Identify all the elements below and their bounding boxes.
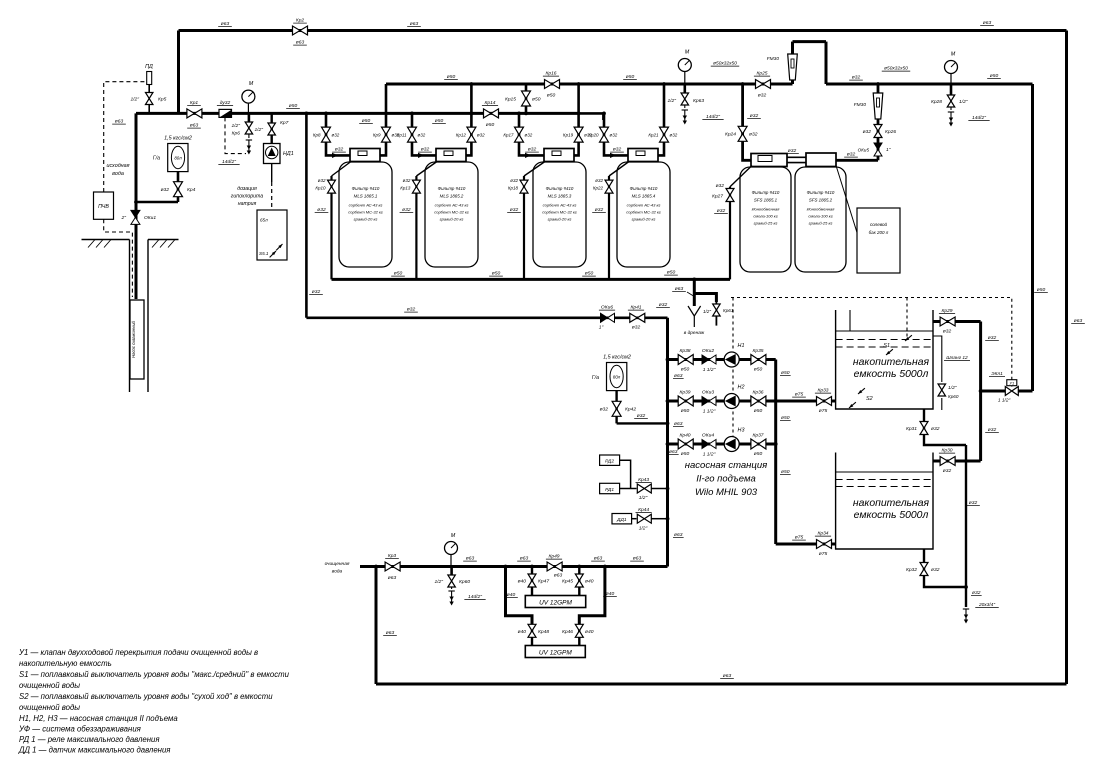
valve Kr27	[726, 189, 734, 202]
wire bottom return pipe O63	[376, 683, 1067, 686]
svg-text:ø63: ø63	[674, 421, 683, 427]
head softener SFS2	[806, 153, 836, 167]
svg-text:ø63: ø63	[675, 286, 684, 292]
svg-text:S2: S2	[866, 396, 873, 402]
svg-text:ø32: ø32	[332, 132, 340, 137]
tank hypochlorite 65l	[257, 210, 287, 260]
svg-text:1/2": 1/2"	[434, 579, 443, 585]
svg-text:Кр42: Кр42	[625, 407, 636, 413]
tank brine 200l	[857, 208, 900, 273]
pump ND1 dosing	[264, 144, 281, 164]
svg-text:ø63: ø63	[386, 630, 395, 636]
node drain Kr30 cross	[964, 459, 968, 463]
valve Kr50	[450, 567, 453, 578]
svg-text:S5.1: S5.1	[259, 251, 269, 256]
wire ND1 suction hose	[271, 164, 273, 183]
svg-text:насосная станция: насосная станция	[685, 460, 767, 471]
drain under Kr50	[448, 590, 454, 592]
wire PD stub	[148, 85, 150, 114]
svg-text:Ионообменная: Ионообменная	[807, 207, 836, 212]
wire header bump top	[793, 40, 827, 43]
svg-text:SFS 1865.2: SFS 1865.2	[809, 198, 833, 203]
wire filter 4 outlet riser	[658, 84, 664, 155]
svg-text:У1 — клапан двухходовой перекр: У1 — клапан двухходовой перекрытия подач…	[18, 648, 258, 657]
svg-text:Кр61: Кр61	[723, 308, 734, 313]
part tank2 water level	[836, 471, 933, 473]
svg-text:ø32: ø32	[613, 147, 622, 153]
tank filter 1 MLS	[339, 162, 392, 267]
tank Ga2 accumulator	[607, 363, 627, 391]
svg-text:сорбент АС-43 кг: сорбент АС-43 кг	[349, 203, 383, 208]
svg-text:ø50: ø50	[754, 367, 763, 373]
svg-text:ОКи6: ОКи6	[601, 305, 613, 311]
valve Кр35	[751, 355, 766, 365]
valve Kr63	[683, 84, 686, 95]
svg-text:MLS 1865.3: MLS 1865.3	[548, 194, 572, 199]
svg-text:ø32: ø32	[403, 178, 411, 183]
flow arrow filter 4	[610, 153, 616, 158]
svg-text:Фильтр #410: Фильтр #410	[546, 186, 574, 191]
wire dashed PChV to pump	[104, 219, 133, 297]
svg-text:ø32: ø32	[318, 178, 326, 183]
node UV taps	[530, 565, 534, 569]
svg-text:Кр35: Кр35	[752, 348, 763, 354]
svg-text:80л: 80л	[613, 375, 621, 380]
drain under Kr63	[682, 109, 688, 111]
valve Kr45	[575, 574, 583, 587]
svg-text:ø50: ø50	[362, 118, 371, 124]
wire dashed PChV to PD	[104, 82, 146, 192]
wire filter 3 drain diagonal	[524, 162, 545, 177]
svg-text:ø50: ø50	[547, 93, 556, 99]
svg-text:ø32: ø32	[317, 207, 326, 213]
svg-text:ø32: ø32	[931, 567, 940, 573]
svg-text:Кр15: Кр15	[505, 97, 516, 103]
svg-text:ø32: ø32	[863, 129, 872, 135]
svg-text:ø75: ø75	[795, 392, 804, 398]
valve Kr46	[575, 624, 583, 637]
svg-text:гравий-20 кг: гравий-20 кг	[632, 217, 656, 222]
drain under Kr28	[948, 111, 954, 113]
svg-text:очищенной воды: очищенной воды	[19, 681, 80, 690]
svg-text:ø32: ø32	[931, 426, 940, 432]
svg-text:Кр46: Кр46	[562, 629, 573, 635]
part suction lance	[276, 244, 282, 250]
svg-text:М: М	[249, 81, 254, 87]
wire drain collector vertical	[965, 445, 967, 607]
svg-text:Кр1: Кр1	[190, 100, 199, 106]
valve Kr31	[920, 422, 928, 435]
svg-text:ø50: ø50	[447, 74, 456, 80]
wire filter 1 drain line	[330, 176, 332, 279]
node row Н1 suction	[666, 358, 670, 362]
svg-text:Кр32: Кр32	[906, 567, 917, 573]
svg-text:гипохлорита: гипохлорита	[231, 194, 264, 200]
svg-text:14d/2": 14d/2"	[972, 115, 986, 121]
wire filter 4 drain diagonal	[609, 162, 629, 177]
svg-text:ø63: ø63	[674, 532, 683, 538]
svg-text:ду32: ду32	[220, 100, 231, 106]
svg-text:ø50х32х50: ø50х32х50	[884, 66, 908, 72]
svg-text:Кр28: Кр28	[931, 99, 942, 105]
tank filter 2 MLS	[425, 162, 478, 267]
svg-text:ø63: ø63	[983, 20, 992, 26]
svg-text:Кр41: Кр41	[630, 305, 641, 311]
svg-text:ø50х32х50: ø50х32х50	[713, 61, 737, 67]
svg-text:ОКи4: ОКи4	[702, 433, 714, 439]
svg-text:ø32: ø32	[670, 132, 678, 137]
svg-text:Кр29: Кр29	[941, 308, 952, 314]
valve Кр37	[751, 439, 766, 449]
svg-text:ø32: ø32	[161, 187, 170, 193]
node EKl1 junction	[979, 389, 983, 393]
svg-text:ø40: ø40	[518, 579, 527, 585]
node Kr21 header tee	[662, 82, 666, 86]
wire accumulator to raw pipe	[136, 201, 178, 204]
svg-text:ø32: ø32	[595, 207, 604, 213]
wire dashed EKl1 control	[1011, 298, 1013, 380]
svg-text:ø50: ø50	[492, 271, 501, 277]
valve Кр13	[412, 180, 420, 193]
svg-text:Кр31: Кр31	[906, 426, 917, 432]
hose Shlang 12	[933, 336, 942, 382]
tank filter 3 MLS	[533, 162, 586, 267]
valve EKl1 solenoid U1	[1018, 390, 1033, 393]
svg-text:Ионообменная: Ионообменная	[752, 207, 781, 212]
node filter 2 inlet tee	[410, 112, 414, 116]
svg-text:ø32: ø32	[637, 413, 646, 419]
svg-text:ø63: ø63	[554, 573, 563, 579]
svg-text:ø50: ø50	[754, 451, 763, 457]
wire dashed S1 control	[906, 298, 908, 339]
svg-text:М: М	[685, 50, 690, 56]
float switch S1	[905, 335, 912, 341]
svg-text:MLS 1865.4: MLS 1865.4	[632, 194, 656, 199]
wire SFS drain line	[729, 187, 731, 280]
wire branch to Kr20	[579, 113, 604, 120]
svg-text:ø32: ø32	[758, 93, 767, 99]
wire UV right outer	[579, 567, 605, 625]
svg-text:UV 12GPM: UV 12GPM	[539, 600, 572, 607]
svg-text:ø32: ø32	[988, 427, 997, 433]
tank softener SFS2	[795, 167, 846, 272]
drain under Kr6	[246, 139, 252, 141]
svg-text:ø63: ø63	[594, 556, 603, 562]
wire suction header	[666, 318, 669, 567]
svg-text:исходная: исходная	[106, 163, 129, 169]
svg-text:ОКи1: ОКи1	[144, 215, 156, 221]
svg-text:SFS 1865.1: SFS 1865.1	[754, 198, 778, 203]
svg-text:РД2: РД2	[605, 459, 614, 465]
controller PChV	[94, 192, 114, 219]
svg-text:1,5 кгс/см2: 1,5 кгс/см2	[603, 355, 631, 361]
valve Кр17	[515, 127, 524, 142]
svg-text:ø40: ø40	[507, 592, 516, 598]
svg-text:1/2": 1/2"	[639, 526, 648, 532]
svg-text:ø32: ø32	[418, 132, 426, 137]
drain outlet 20x3/4	[963, 608, 969, 610]
svg-text:ø40: ø40	[518, 629, 527, 635]
svg-text:вода: вода	[112, 171, 124, 177]
svg-text:ø63: ø63	[410, 21, 419, 27]
svg-text:Кр40: Кр40	[679, 433, 690, 439]
svg-text:РД1: РД1	[605, 487, 614, 493]
valve Kr4	[174, 182, 183, 197]
valve Кр22	[605, 180, 613, 193]
svg-text:ЭКл1: ЭКл1	[991, 371, 1003, 377]
svg-text:ø32: ø32	[335, 147, 344, 153]
valve Кр36	[751, 396, 766, 406]
svg-text:ø63: ø63	[669, 449, 678, 455]
wire filter 3 inlet drop	[519, 113, 544, 155]
svg-text:Кр19: Кр19	[563, 132, 574, 137]
svg-text:дозация: дозация	[237, 186, 257, 192]
valve Kr32	[920, 563, 928, 576]
svg-text:накопительную емкость: накопительную емкость	[19, 659, 112, 668]
svg-text:Н3: Н3	[738, 428, 745, 434]
unit UV1	[525, 596, 585, 608]
valve Kr42	[612, 401, 621, 416]
svg-text:Кр27: Кр27	[712, 194, 723, 200]
svg-text:УФ — система обеззараживания: УФ — система обеззараживания	[18, 725, 142, 734]
wire output to bottom return	[375, 567, 378, 685]
svg-text:2": 2"	[121, 215, 127, 221]
svg-text:гравий-25 кг: гравий-25 кг	[754, 221, 778, 226]
svg-text:14d/2": 14d/2"	[222, 159, 236, 165]
svg-text:У1: У1	[1009, 380, 1014, 385]
check valve ОКи3	[702, 397, 709, 406]
valve Kr28	[950, 84, 953, 96]
check valve ОКи2	[702, 355, 709, 364]
wire Ga2 drop	[615, 391, 617, 424]
svg-text:ø32: ø32	[943, 468, 952, 474]
node H2 discharge cross	[774, 399, 778, 403]
check valve ОКи4	[702, 440, 709, 449]
svg-text:ø63: ø63	[190, 123, 199, 129]
wire dashed pumps control	[732, 298, 734, 453]
svg-text:ДД 1 — датчик максимального да: ДД 1 — датчик максимального давления	[18, 746, 171, 755]
gauge M4	[450, 555, 452, 567]
svg-text:ø40: ø40	[585, 579, 594, 585]
wire filter 1 outlet riser	[380, 84, 386, 155]
svg-text:ø63: ø63	[296, 40, 305, 46]
wire discharge header	[774, 360, 777, 545]
node backwash tee	[305, 112, 309, 116]
svg-text:ø50: ø50	[1037, 287, 1046, 293]
svg-text:1/2": 1/2"	[254, 127, 263, 133]
device du32 filter	[219, 109, 232, 117]
wire filter 2 drain diagonal	[416, 162, 437, 177]
svg-text:Wilo MHIL 903: Wilo MHIL 903	[695, 487, 758, 498]
wire accumulator drop	[177, 172, 180, 202]
valve Кр8	[322, 127, 331, 142]
flow arrow filter 3	[525, 153, 531, 158]
node filter 1 inlet tee	[324, 112, 328, 116]
svg-text:Кр44: Кр44	[638, 507, 649, 513]
svg-text:Кр24: Кр24	[725, 132, 736, 138]
svg-text:Кр4: Кр4	[187, 187, 196, 193]
svg-text:М: М	[451, 533, 456, 539]
svg-text:Фильтр #410: Фильтр #410	[630, 186, 658, 191]
wire filter 2 inlet drop	[412, 113, 436, 155]
wire Kr43 to header	[652, 488, 668, 490]
svg-text:гравий-20 кг: гравий-20 кг	[354, 217, 378, 222]
part tank1 water level	[836, 330, 933, 332]
wire tank1 drain	[924, 409, 966, 445]
svg-text:Кр6: Кр6	[232, 131, 241, 137]
svg-text:Г/а: Г/а	[153, 156, 160, 162]
valve Кр12	[467, 127, 476, 142]
svg-text:ø32: ø32	[600, 407, 609, 413]
svg-text:ø50: ø50	[681, 408, 690, 414]
svg-text:ø32: ø32	[610, 132, 618, 137]
valve Kr5	[145, 93, 153, 105]
svg-text:Кр25: Кр25	[756, 71, 767, 77]
svg-text:1/2": 1/2"	[639, 495, 648, 501]
svg-text:Кр43: Кр43	[638, 477, 649, 483]
wire Kr30 line	[933, 460, 981, 463]
valve Кр10	[328, 180, 336, 193]
float switch S2	[858, 388, 865, 394]
svg-text:М: М	[951, 52, 956, 58]
svg-text:ø50: ø50	[626, 74, 635, 80]
pump Н1	[724, 352, 739, 367]
svg-text:Кр22: Кр22	[593, 186, 604, 191]
wire UV1 left tap	[531, 567, 533, 596]
svg-text:ø63: ø63	[1074, 318, 1083, 324]
svg-text:1/2": 1/2"	[959, 99, 968, 105]
svg-text:Кр47: Кр47	[538, 579, 549, 585]
svg-text:ø32: ø32	[312, 289, 321, 295]
svg-text:ø40: ø40	[606, 591, 615, 597]
svg-text:ø63: ø63	[388, 575, 397, 581]
svg-text:емкость 5000л: емкость 5000л	[854, 510, 929, 521]
part Ga ellipse	[171, 146, 184, 168]
wire header bump up	[791, 42, 794, 84]
valve Kr16	[545, 80, 560, 89]
relay RD1	[600, 483, 620, 493]
wire filter 3 drain line	[523, 176, 525, 279]
svg-text:ø63: ø63	[115, 119, 124, 125]
wire header bump down	[825, 42, 828, 84]
wire filter bottom collection	[332, 278, 731, 281]
svg-text:ОКи5: ОКи5	[858, 148, 870, 153]
wire top bypass pipe O63	[179, 29, 1067, 32]
valve Кр20	[600, 127, 609, 142]
svg-text:Кр18: Кр18	[508, 186, 519, 191]
wire clean water line	[360, 565, 668, 568]
svg-text:ø32: ø32	[847, 152, 856, 158]
svg-text:Кр45: Кр45	[562, 579, 573, 585]
node row Н2 suction	[666, 399, 670, 403]
svg-text:1": 1"	[599, 325, 604, 331]
svg-text:гравий-20 кг: гравий-20 кг	[548, 217, 572, 222]
svg-text:ø32: ø32	[749, 132, 758, 138]
node Ga2 tee	[666, 422, 670, 426]
svg-text:ø32: ø32	[988, 335, 997, 341]
svg-text:Кр13: Кр13	[400, 186, 411, 191]
check valve OKi5	[874, 143, 882, 150]
svg-text:ø32: ø32	[972, 590, 981, 596]
svg-text:Кр33: Кр33	[817, 388, 828, 394]
wire header right O50	[826, 83, 1033, 86]
svg-text:S1: S1	[883, 343, 890, 349]
svg-text:ø32: ø32	[402, 207, 411, 213]
relay RD2	[600, 455, 620, 465]
wire filter 1 inlet drop	[326, 113, 350, 155]
svg-text:ø32: ø32	[969, 500, 978, 506]
tank Ga accumulator	[168, 144, 188, 172]
svg-text:Кр34: Кр34	[817, 531, 828, 537]
svg-text:20х3/4": 20х3/4"	[978, 602, 995, 608]
svg-text:сорбент МС-32 кг: сорбент МС-32 кг	[348, 210, 383, 215]
svg-text:Кр49: Кр49	[548, 554, 559, 560]
svg-text:ø50: ø50	[486, 122, 495, 128]
svg-text:Кр17: Кр17	[503, 132, 514, 137]
wire Ga2 to suction	[617, 422, 668, 424]
valve Kr24	[738, 126, 747, 141]
svg-text:сорбент МС-32 кг: сорбент МС-32 кг	[542, 210, 577, 215]
valve Кр18	[520, 180, 528, 193]
svg-text:1/2": 1/2"	[948, 385, 957, 391]
svg-text:UV 12GPM: UV 12GPM	[539, 650, 572, 657]
sensor DD1	[612, 514, 632, 524]
node H3 discharge tee	[774, 442, 778, 446]
svg-text:Кр37: Кр37	[752, 433, 763, 439]
wire filter 2 drain line	[415, 176, 417, 279]
svg-text:80л: 80л	[174, 156, 182, 161]
svg-text:ø32: ø32	[788, 148, 797, 154]
svg-text:Кр10: Кр10	[315, 186, 326, 191]
svg-text:ø50: ø50	[681, 451, 690, 457]
svg-text:ø32: ø32	[525, 132, 533, 137]
node filter3 main tee	[577, 112, 581, 116]
svg-text:Шланг 12: Шланг 12	[946, 355, 968, 361]
wire DD1 connection	[632, 518, 637, 520]
wire drain branch	[694, 294, 716, 303]
valve Kr6	[248, 113, 251, 124]
node row Н3 suction	[666, 442, 670, 446]
wire SFS inlet drop	[743, 84, 751, 160]
svg-text:РД 1 — реле максимального давл: РД 1 — реле максимального давления	[19, 735, 160, 744]
svg-text:ø50: ø50	[781, 370, 790, 376]
node Kr15 foot	[524, 112, 528, 116]
svg-text:сорбент АС-43 кг: сорбент АС-43 кг	[435, 203, 469, 208]
svg-text:ø50: ø50	[781, 415, 790, 421]
rotameter FM30 no1	[788, 54, 798, 80]
svg-text:14d/2": 14d/2"	[706, 114, 720, 120]
gauge M1	[247, 104, 249, 114]
node accumulator tee	[134, 200, 138, 204]
valve Kr29	[940, 317, 955, 326]
svg-text:смола-100 кг: смола-100 кг	[808, 214, 832, 219]
svg-text:ø32: ø32	[528, 147, 537, 153]
svg-text:1/2": 1/2"	[231, 123, 240, 129]
valve Кр21	[660, 127, 669, 142]
svg-text:Кр7: Кр7	[280, 120, 289, 126]
svg-text:ø63: ø63	[221, 21, 230, 27]
wire Kr34 line to tank2	[776, 543, 836, 546]
wire tank feed vertical	[979, 322, 982, 462]
svg-text:Кр9: Кр9	[373, 132, 381, 137]
tank storage 1 walls	[836, 310, 933, 409]
wire UV2 left tap	[531, 616, 533, 646]
svg-text:S2 — поплавковый выключатель у: S2 — поплавковый выключатель уровня воды…	[19, 692, 273, 701]
valve Кр19	[574, 127, 583, 142]
wire RD2 connection	[620, 460, 631, 488]
svg-text:в дренаж: в дренаж	[684, 330, 705, 336]
svg-text:ø32: ø32	[477, 132, 485, 137]
